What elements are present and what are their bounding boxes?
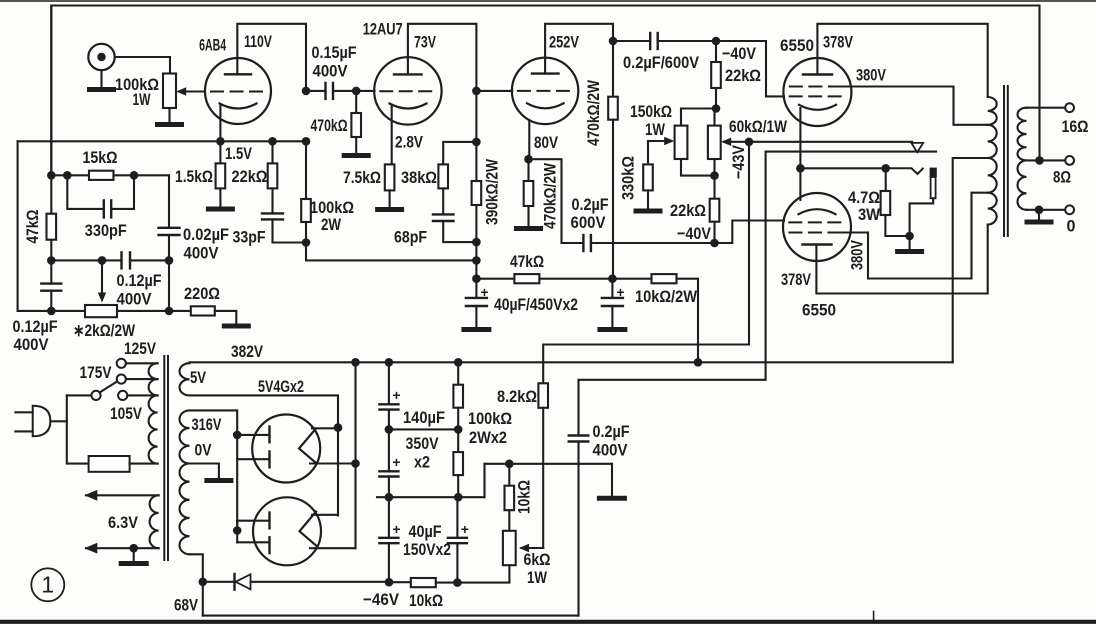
capacitor 40uF 450V B (602, 279, 625, 328)
label 6k 1W (524, 550, 551, 587)
tube V3 plate (532, 72, 559, 74)
ground 40uF B (600, 327, 625, 332)
wire 6.3V gnd (133, 548, 135, 561)
wire 12AU7 cathode lead (391, 106, 393, 164)
wiper arrow 150k (648, 137, 674, 145)
svg-text:0.15µF: 0.15µF (312, 43, 357, 62)
wire feedback top border from 8-ohm tap to input stage (51, 6, 1039, 176)
wire cathode to jack contact (800, 167, 885, 169)
schematic number 1 (31, 568, 64, 601)
label 330pF (85, 221, 127, 240)
svg-text:5V4Gx2: 5V4Gx2 (258, 377, 304, 396)
wire jack to volume pot (115, 57, 170, 74)
label 22k (232, 167, 268, 186)
svg-text:400V: 400V (593, 441, 629, 460)
svg-text:110V: 110V (244, 32, 272, 51)
capacitor 33pF (262, 188, 283, 242)
label 73V (414, 33, 436, 52)
wire 15k right (114, 174, 170, 176)
tube 12AU7 grid (380, 90, 435, 92)
ground 0 terminal (1027, 220, 1051, 225)
wire pot to 220R (117, 310, 191, 312)
svg-text:6550: 6550 (802, 301, 836, 320)
label -40V lower (677, 224, 712, 243)
wire V3 plate rail (545, 24, 613, 74)
svg-text:400V: 400V (313, 62, 349, 81)
wiper arrow volume pot (176, 87, 205, 95)
node 5V4G lower plate feed (233, 526, 242, 535)
resistor 47k vertical (47, 214, 57, 240)
tube V3 envelope (512, 58, 578, 124)
node V3 cathode (524, 155, 533, 164)
node 22k top (268, 137, 277, 146)
node -46V B (453, 578, 462, 587)
label 33pF (233, 228, 266, 247)
svg-text:−43V: −43V (729, 144, 748, 179)
node cathode join upper (351, 459, 360, 468)
wire V2 plate to V3 grid (476, 90, 512, 92)
node NFB 15k (47, 171, 56, 180)
node 5V4G upper plate feed (233, 431, 242, 440)
transformer OPT primary winding (988, 97, 997, 225)
node 330p left (63, 171, 72, 180)
svg-text:470kΩ: 470kΩ (311, 116, 348, 135)
svg-text:6kΩ: 6kΩ (524, 550, 551, 569)
resistor 220R (191, 306, 215, 315)
svg-text:150kΩ: 150kΩ (630, 102, 672, 121)
label 22k lower (670, 201, 706, 220)
ground 330k (636, 209, 660, 214)
transformer OPT core (1004, 86, 1008, 236)
node pots top (712, 104, 721, 113)
svg-text:1W: 1W (133, 90, 152, 109)
svg-text:400V: 400V (14, 335, 50, 354)
switch contact 105V (118, 391, 158, 400)
node 68p return (472, 238, 481, 247)
node 0.02u rail (165, 307, 174, 316)
capacitor 0.12uF 400V left (41, 284, 61, 311)
tube V3 cathode (527, 103, 564, 108)
svg-text:400V: 400V (184, 244, 220, 263)
wire OPT secondary 16 ohm (1027, 107, 1066, 109)
svg-text:380V: 380V (848, 240, 867, 270)
svg-text:330pF: 330pF (85, 221, 127, 240)
label 40uF (409, 522, 442, 541)
label 252V (549, 33, 579, 52)
svg-text:382V: 382V (231, 342, 264, 361)
svg-text:60kΩ/1W: 60kΩ/1W (729, 117, 788, 136)
wire 6550u cathode down (799, 108, 801, 200)
svg-text:+: + (392, 521, 400, 537)
svg-text:378V: 378V (823, 33, 853, 52)
ground 40uF A (464, 327, 489, 332)
wire to V2 grid (356, 90, 374, 92)
svg-text:125V: 125V (124, 339, 157, 358)
wire to ground 4.7R (909, 236, 911, 250)
label 470k2W plate rot (584, 79, 603, 146)
wire B+ to OPT center tap (953, 158, 988, 362)
node heater upper (334, 423, 343, 432)
label 6AB4 (199, 36, 226, 55)
label 10k 2W (635, 287, 698, 306)
label 10k bias bottom (409, 591, 443, 610)
tube V3 grid (518, 90, 572, 92)
plug tip triangle (911, 143, 923, 152)
resistor 470k grid leak (351, 91, 361, 154)
node coupling in (302, 87, 311, 96)
node cathode V1 (216, 137, 225, 146)
node 15k right (130, 171, 139, 180)
node -40V lower (710, 239, 719, 248)
label 10k rot (515, 480, 534, 514)
tube 6550 upper grid (790, 95, 845, 97)
svg-text:0.2µF: 0.2µF (593, 422, 630, 441)
mains plug (15, 406, 50, 437)
label 6550 upper (780, 36, 814, 55)
wiper arrow 60k (721, 138, 749, 146)
wire 220R to ground (215, 311, 237, 324)
resistor 38k with 68pF (438, 142, 476, 215)
wire fil top upper (312, 427, 338, 429)
svg-text:150Vx2: 150Vx2 (403, 540, 451, 559)
capacitor 0.12uF 400V mid (51, 252, 169, 268)
svg-text:47kΩ: 47kΩ (510, 252, 544, 271)
label 47k rot (23, 210, 42, 244)
wire caps mid link (389, 428, 458, 430)
capacitor 0.02uF 400V (159, 175, 180, 311)
label 380V upper (856, 66, 886, 85)
capacitor 40uF 450V A (466, 279, 489, 328)
terminal 8 ohm (1065, 156, 1074, 165)
potentiometer 150k 1W (675, 126, 688, 159)
svg-text:100kΩ: 100kΩ (468, 409, 512, 428)
svg-text:68V: 68V (174, 596, 199, 615)
diode bias (235, 574, 390, 590)
label 22k upper (725, 66, 761, 85)
label 8.2k (497, 387, 537, 406)
label 380V lower rot (848, 240, 867, 270)
tube 5V4G lower envelope (253, 497, 321, 565)
node 6.3V ground (129, 544, 138, 553)
wire 6550l plate to OPT (816, 225, 987, 294)
node cathodes (796, 164, 805, 173)
wire 6k bottom (508, 565, 510, 582)
wire fil bottom upper (310, 462, 356, 464)
wire cathode bus V1 (18, 140, 306, 142)
input jack connector (88, 44, 114, 88)
ground V3 cathode res (517, 226, 541, 231)
svg-text:0: 0 (1067, 217, 1076, 236)
ground 4.7R (898, 249, 922, 254)
label 0.12uF 400V mid (117, 271, 162, 309)
wire OPT secondary 0 (1027, 209, 1066, 211)
tube 5V4G lower filament (300, 512, 317, 546)
wire jack sleeve to ground node (910, 198, 934, 236)
potentiometer 100k 1W volume (163, 74, 176, 109)
resistor 330k (643, 141, 653, 209)
capacitor 0.2uF 400V (569, 436, 589, 616)
node 40uF B (608, 274, 617, 283)
wire 33pF to node B (273, 241, 307, 243)
capacitor 0.15uF 400V (306, 83, 356, 99)
label 100k 2W (310, 198, 354, 234)
wire node B to V3 node (306, 243, 476, 261)
label 140uF (403, 408, 445, 427)
svg-text:40µF: 40µF (409, 522, 442, 541)
terminal 0 (1065, 205, 1074, 214)
node 100k2W top (302, 137, 311, 146)
ground 470k (344, 153, 368, 158)
svg-text:22kΩ: 22kΩ (232, 167, 268, 186)
svg-text:1: 1 (41, 572, 54, 598)
svg-text:400V: 400V (117, 290, 153, 309)
label 1.5V (225, 144, 253, 163)
wire NFB vertical (50, 6, 52, 284)
wire 8.2k to 6k wiper (519, 408, 543, 552)
label 6550 lower (802, 301, 836, 320)
node B+ rail left (351, 358, 360, 367)
resistor 47k (514, 274, 539, 283)
node V2 plate (472, 87, 481, 96)
label 390k 2W rot (483, 158, 502, 225)
wire 68V bottom end (190, 554, 203, 615)
label 316V (192, 415, 222, 434)
tube 6550 upper plate (803, 73, 832, 75)
resistor 22k lower (710, 199, 720, 222)
svg-text:−40V: −40V (722, 44, 757, 63)
label 0 (1067, 217, 1076, 236)
svg-text:350V: 350V (406, 434, 440, 453)
svg-text:0.02µF: 0.02µF (183, 225, 229, 244)
label 125V (124, 339, 157, 358)
svg-text:∗2kΩ/2W: ∗2kΩ/2W (73, 321, 136, 340)
svg-text:16Ω: 16Ω (1062, 117, 1089, 136)
label 350V (406, 434, 440, 453)
label 68V (174, 596, 199, 615)
node -40V top (712, 37, 721, 46)
tube 6550 lower grid (789, 221, 844, 223)
label 0.15uF 400V (312, 43, 357, 81)
svg-text:0V: 0V (195, 441, 213, 460)
svg-text:0.2µF: 0.2µF (572, 195, 609, 214)
wire 6AB4 cathode lead (219, 106, 221, 141)
svg-text:330kΩ: 330kΩ (619, 156, 638, 200)
ground 220R (224, 324, 248, 329)
svg-text:80V: 80V (534, 133, 559, 152)
label 80V (534, 133, 559, 152)
label 382V (231, 342, 264, 361)
wire 0.2u400V ground leg (611, 464, 613, 496)
wire 0V tap to ground (190, 464, 219, 479)
node caps mid A (385, 425, 394, 434)
ground 6.3V (121, 561, 146, 566)
label 6.3V (108, 513, 139, 532)
resistor 1.5k cathode (216, 141, 226, 207)
wire to 47k (476, 278, 514, 280)
jack switch contact (886, 168, 923, 174)
svg-text:0.12µF: 0.12µF (13, 317, 58, 336)
svg-text:47kΩ: 47kΩ (23, 210, 42, 244)
svg-text:22kΩ: 22kΩ (725, 66, 761, 85)
resistor 390k 2W (472, 142, 482, 279)
terminal 16 ohm (1065, 103, 1074, 112)
tube 6AB4 envelope (205, 58, 271, 124)
wire B+ riser (354, 362, 356, 548)
capacitor 0.2uF 600V top (613, 33, 716, 49)
svg-text:220Ω: 220Ω (184, 284, 220, 303)
tube 5V4G upper filament (299, 429, 316, 463)
label -40V top (722, 44, 757, 63)
label 47k horizontal res (510, 252, 544, 271)
capacitor 40uF 150V B (448, 497, 469, 582)
svg-text:−40V: −40V (677, 224, 712, 243)
wire 150k top (681, 109, 716, 126)
label 2.8V (395, 133, 424, 152)
svg-text:1W: 1W (645, 120, 666, 139)
node mid rail A (385, 493, 394, 502)
node 4.7R bottom (905, 232, 914, 241)
resistor 10k bias (505, 464, 515, 510)
wire jack tip line (749, 141, 912, 143)
wire 6.3V bottom arrow (84, 543, 158, 554)
label 15k (83, 148, 118, 167)
wire 316V tap to plates (190, 410, 238, 530)
tube 12AU7 plate (394, 73, 422, 75)
wire plug to switch and fuse (50, 395, 91, 463)
wire 6550l screen to UL tap (840, 193, 988, 279)
transformer OPT secondary winding (1018, 108, 1027, 210)
wire pots bottom (681, 159, 715, 199)
wire 5V heater line (190, 395, 339, 515)
svg-text:2.8V: 2.8V (395, 133, 424, 152)
transformer PT core (164, 356, 168, 560)
label -46V (363, 590, 400, 609)
wire 6550u plate rail (817, 24, 987, 97)
label 378V upper (823, 33, 853, 52)
label 38k (401, 168, 437, 187)
label 150Vx2 (403, 540, 451, 559)
resistor 100k 2W A (453, 362, 463, 429)
svg-text:33pF: 33pF (233, 228, 266, 247)
node B (302, 238, 311, 247)
svg-text:6550: 6550 (780, 36, 814, 55)
svg-text:12AU7: 12AU7 (363, 20, 403, 39)
svg-text:105V: 105V (110, 404, 143, 423)
label 8 ohm (1053, 168, 1071, 187)
svg-text:175V: 175V (80, 363, 113, 382)
label 7.5k (343, 168, 381, 187)
capacitor 140uF A (379, 362, 400, 429)
svg-text:7.5kΩ: 7.5kΩ (343, 168, 381, 187)
label x2 (414, 453, 430, 472)
wire fil top lower (312, 514, 338, 516)
wire 6.3V top arrow (84, 490, 158, 501)
svg-text:1.5kΩ: 1.5kΩ (175, 167, 213, 186)
tube 6550 lower cathode (799, 209, 836, 214)
svg-text:+: + (392, 387, 400, 403)
resistor 470k 2W plate (608, 41, 618, 279)
wire bottom conductor (203, 615, 579, 617)
fuse (89, 456, 158, 472)
ground volume pot (158, 122, 182, 127)
tube 6550 lower screen (789, 232, 844, 234)
label 470k (311, 116, 348, 135)
label 0V (195, 441, 213, 460)
label -43V rot (729, 144, 748, 179)
capacitor 140uF B (379, 429, 400, 497)
node B right (472, 256, 481, 265)
transformer PT 6.3V winding (150, 495, 159, 548)
wire pot to ground (168, 108, 170, 123)
wiper arrow 2k pot (98, 260, 106, 302)
label 0.2uF 600V lower (571, 195, 609, 232)
label 470k2W cathode rot (541, 162, 560, 229)
label 150k 1W (630, 102, 672, 139)
svg-text:+: + (392, 454, 400, 470)
resistor 100k 2W (301, 141, 311, 242)
switch blade (100, 382, 117, 393)
wire OPT secondary 8 ohm (1027, 159, 1066, 161)
label 5V (190, 368, 207, 387)
node 60k wiper (745, 138, 754, 147)
label 100k 1W (115, 75, 159, 109)
resistor 8.2k (538, 383, 548, 408)
svg-text:68pF: 68pF (394, 228, 427, 247)
svg-text:470kΩ/2W: 470kΩ/2W (541, 162, 560, 229)
svg-text:6.3V: 6.3V (108, 513, 139, 532)
label 12AU7 (363, 20, 403, 39)
svg-text:10kΩ: 10kΩ (515, 480, 534, 514)
svg-text:0.12µF: 0.12µF (117, 271, 162, 290)
node V3 plate top (609, 37, 618, 46)
label 60k 1W (729, 117, 788, 136)
label 175V (80, 363, 113, 382)
node mid rail B (454, 493, 463, 502)
wire bias feed vertical (748, 142, 750, 345)
tube 12AU7 cathode (390, 104, 427, 109)
ground 0.2uF 400V (599, 496, 624, 501)
svg-text:38kΩ: 38kΩ (401, 168, 437, 187)
svg-text:316V: 316V (192, 415, 222, 434)
tube 6550 lower envelope (783, 193, 851, 261)
node V3 Bplus (472, 274, 481, 283)
wire 6550u screen to UL tap (840, 87, 988, 125)
wire 464 row (485, 464, 613, 497)
label 0.2uF 400V (593, 422, 630, 460)
tube 6550 upper screen (790, 86, 845, 88)
svg-text:5V: 5V (190, 368, 207, 387)
tube 5V4G upper envelope (252, 415, 320, 483)
svg-text:40µF/450Vx2: 40µF/450Vx2 (494, 295, 578, 314)
svg-text:8.2kΩ: 8.2kΩ (497, 387, 537, 406)
svg-text:0.2µF/600V: 0.2µF/600V (623, 53, 700, 72)
node 140uF A top (385, 358, 394, 367)
resistor 22k cathode (268, 141, 278, 188)
wire V3 cathode lead (528, 120, 530, 159)
node 100k mid (454, 425, 463, 434)
svg-text:10kΩ/2W: 10kΩ/2W (635, 287, 698, 306)
svg-text:x2: x2 (414, 453, 430, 472)
svg-text:2Wx2: 2Wx2 (469, 428, 507, 447)
svg-text:22kΩ: 22kΩ (670, 201, 706, 220)
switch contact 175V (117, 375, 158, 384)
switch common contact (91, 391, 100, 400)
svg-text:15kΩ: 15kΩ (83, 148, 118, 167)
photo top edge line (0, 0, 1096, 2)
wire 47k to node (539, 278, 612, 280)
resistor 470k 2W cathode (524, 159, 534, 226)
resistor 15k (89, 171, 114, 180)
